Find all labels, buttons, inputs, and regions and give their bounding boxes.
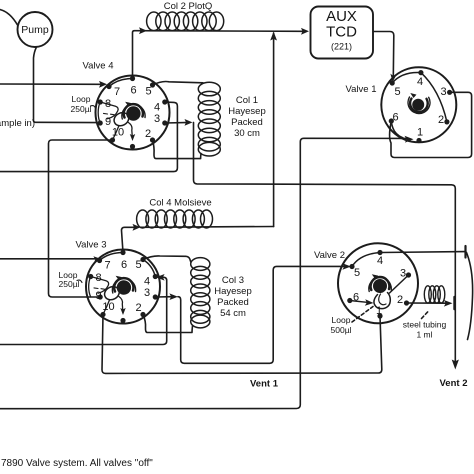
arrowhead on port 3 line xyxy=(185,119,193,126)
arrowhead into valve 3 port 4 xyxy=(156,274,165,281)
svg-text:7: 7 xyxy=(114,86,120,98)
wire valve 4 port 5 to Col 1 top xyxy=(153,82,204,85)
valve 3 loop dashes xyxy=(94,288,104,289)
valve 4 port numbers xyxy=(105,85,160,141)
wire valve 4 port 3 to valve 2 port 4 line and vent 2 column xyxy=(165,121,190,124)
valve 4 body xyxy=(96,76,170,150)
arrowhead vent 2 xyxy=(452,360,459,370)
svg-text:Vent 1: Vent 1 xyxy=(250,379,279,390)
svg-text:6: 6 xyxy=(121,259,127,271)
valve 1 internal arc port 4 to 2 xyxy=(421,73,447,122)
arrowhead up into TCD line xyxy=(270,32,277,41)
wire Col 1 bottom to valve 4 port 2 xyxy=(153,140,202,159)
svg-text:8: 8 xyxy=(105,98,111,110)
valve 1 port dots xyxy=(389,70,453,143)
valve 3 internal arc port 5 to 4 xyxy=(143,260,155,277)
valve 1 port numbers xyxy=(392,76,446,139)
svg-text:3: 3 xyxy=(400,268,406,280)
valve 2 port numbers xyxy=(353,255,406,317)
wire valve 3 port 5 to Col 3 top xyxy=(143,256,191,262)
arrowhead into valve 1 port 5 xyxy=(390,74,396,82)
valve 4 sample loop ellipse xyxy=(112,110,131,128)
wire left edge to valve 3 port 4 xyxy=(0,277,167,344)
arrowhead into valve 1 port 1 xyxy=(405,136,414,143)
svg-text:4: 4 xyxy=(377,255,383,267)
svg-text:6: 6 xyxy=(130,85,136,97)
svg-text:Loop: Loop xyxy=(332,315,351,325)
svg-text:Col 2 PlotQ: Col 2 PlotQ xyxy=(164,1,213,12)
svg-text:Col 1: Col 1 xyxy=(236,95,258,106)
svg-text:4: 4 xyxy=(154,102,160,114)
wire valve 3 port 6 up to Col 4 inlet xyxy=(122,227,137,252)
wire sample feed into pump xyxy=(0,10,18,26)
svg-text:Valve 3: Valve 3 xyxy=(76,240,107,251)
svg-text:250µl: 250µl xyxy=(71,104,92,114)
valve 4 port dots xyxy=(98,76,168,149)
valve 3 connector to port 1 with arrow xyxy=(119,297,123,310)
svg-text:Hayesep: Hayesep xyxy=(228,106,266,117)
valve 4 port 10 connector xyxy=(113,126,120,141)
junction bar on vent 2 line xyxy=(453,297,456,309)
valve 3 sample loop ellipse xyxy=(102,284,121,302)
valve 2 line port 6 with arrow xyxy=(350,301,367,303)
valve 3 loop bracket ports 8-9 xyxy=(89,277,91,298)
wire Col 3 bottom to valve 3 port 2 xyxy=(143,315,193,333)
valve 3 port numbers xyxy=(95,259,150,314)
valve 4 loop bracket ports 8-9 xyxy=(98,102,100,123)
svg-text:1: 1 xyxy=(376,305,382,317)
wire valve 3 port 10 down and right to valve 2 port 1 (vent 1 line) xyxy=(102,315,382,374)
svg-text:3: 3 xyxy=(440,86,446,98)
arrowhead into valve 2 port 5 xyxy=(342,263,351,270)
arrowhead on port 3 line xyxy=(169,293,178,300)
column Col 3 Hayesep coil xyxy=(191,258,210,328)
valve 1 rotor xyxy=(412,99,424,111)
svg-text:Valve 4: Valve 4 xyxy=(83,61,114,72)
svg-text:250µl: 250µl xyxy=(59,279,80,289)
svg-text:TCD: TCD xyxy=(326,24,357,41)
cap bar on port 4 line xyxy=(464,246,466,258)
svg-text:(sample in): (sample in) xyxy=(0,118,35,129)
valve 1 body xyxy=(381,67,456,142)
svg-text:6: 6 xyxy=(392,112,398,124)
arrowhead into AUX TCD xyxy=(301,28,309,35)
valve 2 sample loop xyxy=(374,293,390,309)
svg-text:8: 8 xyxy=(95,272,101,284)
svg-text:Col 4 Molsieve: Col 4 Molsieve xyxy=(149,198,211,209)
svg-text:3: 3 xyxy=(144,287,150,299)
leader dashes steel tubing label xyxy=(422,311,429,319)
wire continuation down to long cross line xyxy=(194,122,456,364)
svg-text:Loop: Loop xyxy=(72,94,91,104)
svg-text:2: 2 xyxy=(145,128,151,140)
pump P1 xyxy=(18,12,53,47)
valve 1 internal arc port 6 to 1 with arrow xyxy=(391,121,403,138)
arrowhead on col2 line xyxy=(139,27,147,34)
arrowhead into vent junction xyxy=(444,300,453,307)
svg-text:3: 3 xyxy=(154,113,160,125)
wire left edge to valve 1 port 1 (bottom long line) xyxy=(0,138,406,408)
leader dashes Loop 500ul label xyxy=(352,307,373,323)
wire Col 4 baseline to junction x273 xyxy=(141,226,274,229)
valve 2 body xyxy=(338,243,418,323)
leader Loop 250ul valve 4 xyxy=(91,106,96,108)
wire Col 4 outlet up to AUX TCD junction xyxy=(273,33,275,227)
curved cut column at right edge xyxy=(467,253,473,340)
valve 2 rotor xyxy=(373,279,387,293)
valve 2 line port 3 to loop xyxy=(390,275,409,293)
column Col 1 Hayesep coil xyxy=(198,82,220,156)
valve 2 internal arc port 5 to 4 xyxy=(352,253,380,267)
svg-text:9: 9 xyxy=(105,116,111,128)
wire carrier line left edge to valve 4 port 7 xyxy=(0,83,100,85)
svg-text:5: 5 xyxy=(145,86,151,98)
svg-text:5: 5 xyxy=(354,267,360,279)
valve 4 loop dashes xyxy=(104,113,114,114)
svg-text:500µl: 500µl xyxy=(331,325,352,335)
wire valve 3 port 3 right, down, to valve 2 port 5 xyxy=(155,296,172,298)
svg-text:Packed: Packed xyxy=(231,117,263,128)
svg-text:30 cm: 30 cm xyxy=(234,128,260,139)
svg-text:steel tubing: steel tubing xyxy=(403,320,447,330)
svg-text:1: 1 xyxy=(417,127,423,139)
svg-text:5: 5 xyxy=(394,86,400,98)
valve 4 internal arc port 7 to 6 xyxy=(109,79,133,87)
AUX TCD box xyxy=(311,7,374,59)
svg-text:9: 9 xyxy=(95,290,101,302)
wire valve 4 port 6 up and right through Col 2 to AUX TCD xyxy=(133,31,303,79)
svg-text:Col 3: Col 3 xyxy=(222,275,244,286)
svg-text:7890 Valve system. All valves: 7890 Valve system. All valves "off" xyxy=(1,458,153,469)
column Col 4 Molsieve coil xyxy=(137,210,213,228)
svg-text:4: 4 xyxy=(144,276,150,288)
wire valve 2 port 4 to capped end right xyxy=(380,251,466,254)
svg-text:2: 2 xyxy=(438,114,444,126)
svg-text:6: 6 xyxy=(353,292,359,304)
column Col 2 PlotQ coil xyxy=(147,12,224,31)
wire valve 1 port 3 external tube to port 6 xyxy=(390,92,472,157)
svg-text:10: 10 xyxy=(102,301,114,313)
wire pump outlet down to valve 4 port 9 xyxy=(34,47,98,123)
valve 3 body xyxy=(86,250,160,324)
svg-text:Valve 1: Valve 1 xyxy=(346,84,377,95)
valve 3 internal arc port 7 to 6 xyxy=(100,253,124,261)
svg-text:Vent 2: Vent 2 xyxy=(440,378,468,389)
svg-text:10: 10 xyxy=(112,127,124,139)
valve 2 port dots xyxy=(347,250,411,319)
svg-text:4: 4 xyxy=(417,76,423,88)
wire AUX TCD right to valve 1 port 5 xyxy=(373,32,394,77)
svg-text:Pump: Pump xyxy=(21,24,49,36)
svg-text:5: 5 xyxy=(135,259,141,271)
svg-text:54 cm: 54 cm xyxy=(220,308,246,319)
svg-text:Hayesep: Hayesep xyxy=(214,286,252,297)
valve 1 internal arc port 5 to 4 xyxy=(392,73,421,83)
svg-text:1 ml: 1 ml xyxy=(416,330,432,340)
arrowhead into valve 3 port 7 xyxy=(93,256,102,263)
svg-text:Valve 2: Valve 2 xyxy=(314,250,345,261)
svg-text:Packed: Packed xyxy=(217,297,249,308)
valve 4 rotor xyxy=(126,106,140,120)
svg-text:7: 7 xyxy=(104,260,110,272)
arrowhead into Col 4 xyxy=(133,224,141,231)
valve 3 rotor xyxy=(117,280,131,294)
svg-text:(221): (221) xyxy=(331,42,352,52)
coil steel tubing xyxy=(424,286,445,303)
wire valve 2 port 2 to steel tubing to vent junction xyxy=(407,302,447,304)
svg-text:2: 2 xyxy=(135,302,141,314)
wire valve 4 port 10 left, down, to valve 3 port 9 xyxy=(49,140,113,297)
wire valve 4 port 4 down and left to edge xyxy=(0,102,177,172)
leader Loop 250ul valve 3 xyxy=(77,280,82,282)
wire left edge to valve 3 port 7 xyxy=(0,258,95,260)
arrowhead into valve 4 port 7 xyxy=(99,81,107,88)
valve 3 port dots xyxy=(88,250,158,323)
valve 3 port 10 connector xyxy=(103,300,110,315)
svg-text:AUX: AUX xyxy=(326,8,357,25)
valve 4 connector to port 1 with arrow xyxy=(128,123,132,136)
svg-text:2: 2 xyxy=(397,294,403,306)
